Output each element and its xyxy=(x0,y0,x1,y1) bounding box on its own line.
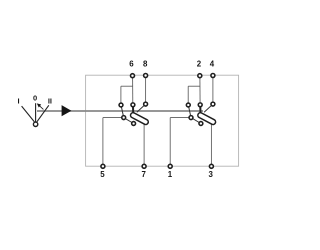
terminal 1 xyxy=(168,164,172,168)
wire: terminal 4 down to contact C2 xyxy=(212,77,214,102)
svg-text:5: 5 xyxy=(100,170,105,179)
contact E1 xyxy=(132,122,136,126)
wire: contact B2 stub to cam bridge 2 xyxy=(199,107,201,114)
movable cam contact bridge, section 1 xyxy=(130,112,150,126)
contact C2 xyxy=(211,102,215,106)
wire: contact D2 to contact E2 xyxy=(191,118,201,124)
wire: branch from 6 to contact A1 (vertical) xyxy=(120,86,122,103)
wire: contact D1 to contact E1 xyxy=(124,118,134,124)
lever pivot xyxy=(33,122,37,126)
contact B1 xyxy=(131,103,135,107)
svg-text:2: 2 xyxy=(197,59,202,68)
svg-text:4: 4 xyxy=(210,59,215,68)
terminal 7 xyxy=(142,164,146,168)
svg-text:I: I xyxy=(17,97,19,106)
wire: terminal 8 down to contact C1 xyxy=(145,77,147,102)
enclosure box of switch assembly xyxy=(86,75,239,166)
svg-text:7: 7 xyxy=(142,170,147,179)
wire: terminal 5 up (vertical) xyxy=(102,118,104,165)
wire: terminal 1 to contact D2 (horizontal) xyxy=(170,117,191,119)
wire: branch from 6 to contact A1 (horizontal) xyxy=(121,85,133,87)
contact C1 xyxy=(144,102,148,106)
return arrow from II to 0 xyxy=(37,103,44,109)
contact D2 xyxy=(189,116,193,120)
wire: contact C1 to cam bridge 1 xyxy=(137,104,146,112)
wire: contact B1 stub to cam bridge 1 xyxy=(132,107,134,114)
wire: terminal 6 down to contact B1 xyxy=(132,78,134,104)
svg-text:6: 6 xyxy=(129,59,134,68)
wire: contact A2 to contact D2 xyxy=(188,105,191,118)
terminal 8 xyxy=(144,74,148,78)
terminal 6 xyxy=(131,74,135,78)
terminal 3 xyxy=(209,164,213,168)
wire: contact C2 to cam bridge 2 xyxy=(204,104,213,112)
lever position line 0 xyxy=(35,103,37,121)
terminal 2 xyxy=(198,74,202,78)
wire: terminal 7 up to cam bridge 1 xyxy=(143,121,145,165)
lever position line II xyxy=(37,105,49,122)
svg-text:II: II xyxy=(48,96,52,105)
wire: branch from 2 to contact A2 (horizontal) xyxy=(188,85,200,87)
svg-text:8: 8 xyxy=(143,59,148,68)
lever position line I xyxy=(22,106,35,122)
contact A2 xyxy=(186,103,190,107)
wire: terminal 3 up to cam bridge 2 xyxy=(210,121,212,165)
wire: control shaft from lever to cam sections xyxy=(37,110,203,112)
wire: terminal 5 to contact D1 (horizontal) xyxy=(103,117,124,119)
contact D1 xyxy=(122,116,126,120)
terminal 4 xyxy=(211,74,215,78)
arrowhead on control shaft xyxy=(62,105,72,116)
terminal 5 xyxy=(101,164,105,168)
contact A1 xyxy=(119,103,123,107)
wire: branch from 2 to contact A2 (vertical) xyxy=(187,86,189,103)
wire: contact A1 to contact D1 xyxy=(121,105,124,118)
contact E2 xyxy=(199,122,203,126)
movable cam contact bridge, section 2 xyxy=(197,112,217,126)
svg-text:0: 0 xyxy=(33,94,37,103)
wire: terminal 2 down to contact B2 xyxy=(199,78,201,104)
wire: terminal 1 up (vertical) xyxy=(169,118,171,165)
svg-text:3: 3 xyxy=(209,170,214,179)
svg-text:1: 1 xyxy=(168,170,173,179)
contact B2 xyxy=(198,103,202,107)
